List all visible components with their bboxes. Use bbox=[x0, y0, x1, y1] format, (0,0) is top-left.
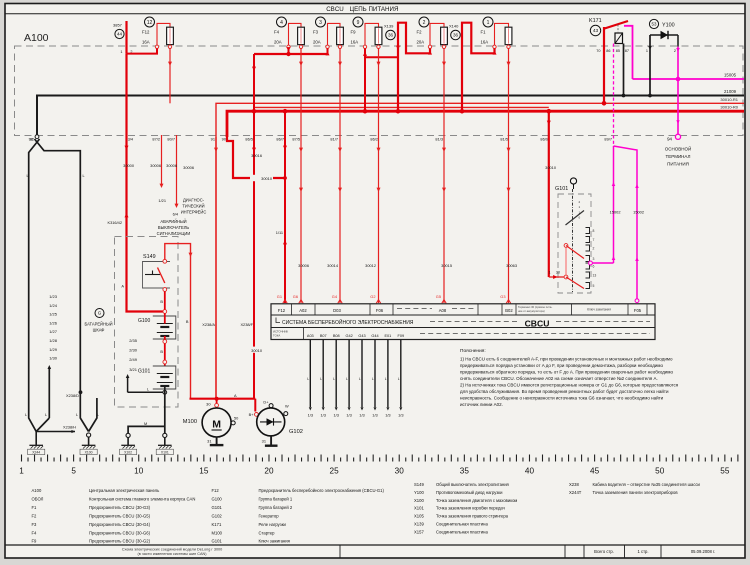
svg-text:53: 53 bbox=[652, 22, 657, 27]
fuse F2 pin circles bbox=[428, 45, 431, 48]
svg-text:15: 15 bbox=[199, 467, 209, 476]
switch S149 wire to B bbox=[165, 244, 191, 399]
svg-text:36: 36 bbox=[453, 33, 459, 38]
magenta bus 15005 bbox=[633, 78, 745, 80]
svg-text:6/4: 6/4 bbox=[173, 212, 179, 217]
fuse F3 symbol bbox=[337, 27, 344, 44]
svg-text:S149: S149 bbox=[143, 254, 156, 260]
starter M100 ground 31 bbox=[216, 437, 218, 445]
wire knot pin 90 thick 30010 bbox=[227, 137, 285, 178]
svg-text:G101: G101 bbox=[138, 369, 150, 375]
svg-text:F09: F09 bbox=[398, 334, 405, 338]
fuse F9 pin circles bbox=[363, 45, 366, 48]
svg-text:X100: X100 bbox=[85, 451, 93, 455]
svg-text:87: 87 bbox=[625, 49, 629, 53]
wire battery G100 to G101 bbox=[164, 336, 166, 366]
svg-text:ШКАФ: ШКАФ bbox=[93, 328, 105, 333]
relay K171 red wire pin 70 to bus bbox=[603, 27, 605, 103]
svg-text:Реле нагрузки: Реле нагрузки bbox=[259, 522, 287, 527]
svg-text:1/3: 1/3 bbox=[385, 413, 390, 418]
wire stub 87/2 to 1/21 bbox=[161, 135, 163, 184]
svg-text:1/28: 1/28 bbox=[49, 338, 58, 343]
svg-text:1/23: 1/23 bbox=[49, 294, 58, 299]
svg-text:L: L bbox=[83, 174, 85, 178]
svg-text:89/7: 89/7 bbox=[604, 136, 612, 141]
svg-text:85: 85 bbox=[616, 49, 620, 53]
A100 dashed boundary box bbox=[15, 46, 744, 136]
CBCU row2 dashes bbox=[430, 321, 517, 323]
svg-text:20A: 20A bbox=[274, 40, 282, 45]
svg-text:31: 31 bbox=[262, 439, 266, 444]
svg-text:G102: G102 bbox=[289, 429, 303, 435]
svg-text:Терминал 30 (прямое пита-: Терминал 30 (прямое пита- bbox=[518, 305, 552, 309]
svg-text:S149: S149 bbox=[414, 482, 424, 487]
svg-text:81/5: 81/5 bbox=[500, 136, 508, 141]
ground wire 92 fork bbox=[35, 135, 39, 139]
svg-text:L: L bbox=[398, 377, 400, 381]
svg-text:G101: G101 bbox=[212, 505, 223, 510]
svg-text:12: 12 bbox=[147, 20, 153, 26]
wire G3 to CBCU B02 bbox=[508, 49, 510, 304]
wire G6 to CBCU A02 bbox=[300, 49, 302, 304]
svg-text:F12: F12 bbox=[142, 30, 150, 35]
svg-text:F4: F4 bbox=[274, 30, 280, 35]
svg-text:ДИАГНОС-: ДИАГНОС- bbox=[183, 198, 205, 203]
svg-text:A08: A08 bbox=[439, 308, 447, 313]
terminal 94 circle bbox=[675, 134, 680, 139]
ignition switch magenta contact 6 bbox=[589, 261, 593, 265]
svg-text:G101: G101 bbox=[555, 186, 568, 192]
svg-text:L: L bbox=[25, 413, 27, 417]
svg-text:G42: G42 bbox=[346, 334, 353, 338]
CBCU connector cell dividers bbox=[291, 304, 293, 315]
svg-text:M: M bbox=[212, 419, 221, 431]
svg-text:81/3: 81/3 bbox=[435, 136, 443, 141]
CBCU UPS system caption bbox=[276, 318, 280, 323]
ruler scale bbox=[22, 455, 738, 462]
black bus 21009 bbox=[37, 96, 744, 135]
svg-text:Предохранитель CBCU (30-G3): Предохранитель CBCU (30-G3) bbox=[89, 505, 151, 510]
svg-text:B: B bbox=[160, 299, 163, 304]
svg-text:F3: F3 bbox=[32, 522, 38, 527]
relay K171 contact arm bbox=[605, 21, 629, 29]
svg-text:86/2: 86/2 bbox=[370, 136, 378, 141]
fuse F2 symbol bbox=[441, 27, 448, 44]
svg-text:1/3: 1/3 bbox=[372, 413, 377, 418]
magenta pin arrow F05 bbox=[635, 300, 638, 303]
fuse F9 circled pin number 9 bbox=[353, 17, 363, 27]
wire bracket battery minus bbox=[128, 391, 163, 393]
battery cabinet circled G bbox=[95, 309, 104, 318]
fuse F1 circled pin number 1 bbox=[483, 17, 493, 27]
svg-text:31: 31 bbox=[207, 439, 211, 444]
svg-text:16A: 16A bbox=[142, 40, 150, 45]
svg-text:СИГНАЛИЗАЦИИ: СИГНАЛИЗАЦИИ bbox=[157, 231, 191, 236]
connector pin 44 circled bbox=[115, 29, 124, 38]
svg-text:05.09.2008 г.: 05.09.2008 г. bbox=[691, 549, 715, 554]
svg-text:A02: A02 bbox=[299, 308, 307, 313]
svg-text:F3: F3 bbox=[313, 30, 319, 35]
svg-text:ЦЕПЬ ПИТАНИЯ: ЦЕПЬ ПИТАНИЯ bbox=[350, 6, 399, 13]
svg-text:неисправность. Сообщение о неи: неисправность. Сообщение о неисправности… bbox=[460, 394, 664, 400]
CBCU ground wires bbox=[309, 340, 311, 408]
wire thick drop to bus at x254 bbox=[253, 54, 255, 399]
svg-text:Точка заземления панели электр: Точка заземления панели электроприборов bbox=[593, 490, 679, 495]
svg-text:L: L bbox=[372, 377, 374, 381]
svg-text:1/3: 1/3 bbox=[308, 413, 313, 418]
svg-text:F05: F05 bbox=[634, 308, 642, 313]
svg-text:35: 35 bbox=[460, 467, 470, 476]
svg-text:(в части изменения системы шин: (в части изменения системы шин CAN) bbox=[137, 552, 207, 556]
svg-text:БАТАРЕЙНЫЙ: БАТАРЕЙНЫЙ bbox=[84, 322, 112, 327]
svg-text:1: 1 bbox=[487, 20, 490, 26]
wire label 30010 box bbox=[250, 175, 273, 181]
wire label 30010 on X238F bbox=[247, 347, 262, 353]
svg-text:70: 70 bbox=[596, 49, 600, 53]
svg-text:F4: F4 bbox=[32, 530, 38, 535]
svg-text:1/27: 1/27 bbox=[49, 329, 58, 334]
ignition switch dashed box bbox=[558, 194, 591, 293]
svg-text:A: A bbox=[121, 284, 124, 289]
svg-text:1/26: 1/26 bbox=[49, 320, 58, 325]
svg-text:44: 44 bbox=[117, 32, 123, 37]
svg-text:1/29: 1/29 bbox=[49, 347, 58, 352]
wire thick feed segment A F4 F3 bbox=[254, 53, 328, 55]
ignition switch arm bbox=[566, 211, 585, 226]
switch S149 red contacts and arm bbox=[163, 259, 167, 263]
fuse F9 wire loop bbox=[365, 23, 379, 45]
svg-text:K316/42: K316/42 bbox=[108, 220, 123, 225]
svg-text:X157: X157 bbox=[414, 529, 424, 534]
generator G102 pin W bbox=[284, 412, 288, 416]
svg-text:1/3: 1/3 bbox=[398, 413, 403, 418]
svg-text:81/7: 81/7 bbox=[330, 136, 338, 141]
svg-text:X101: X101 bbox=[161, 451, 169, 455]
svg-text:40: 40 bbox=[525, 467, 535, 476]
svg-text:Группа батарей 2: Группа батарей 2 bbox=[259, 505, 293, 510]
svg-text:B02: B02 bbox=[505, 308, 513, 313]
svg-text:92: 92 bbox=[30, 137, 34, 142]
svg-text:CBCU: CBCU bbox=[326, 6, 344, 13]
svg-text:G101: G101 bbox=[212, 539, 223, 544]
battery G100 symbol bbox=[153, 316, 176, 339]
wire jumper X238/H bbox=[36, 431, 75, 433]
svg-text:Противопомеховый диод нагрузки: Противопомеховый диод нагрузки bbox=[436, 490, 503, 495]
svg-text:30: 30 bbox=[395, 467, 405, 476]
svg-text:16A: 16A bbox=[351, 40, 359, 45]
battery G101 symbol bbox=[153, 366, 176, 389]
wire stub 1/23-1/30 references bbox=[48, 367, 50, 418]
fuse F1 wire loop bbox=[495, 23, 509, 45]
CBCU source cell text bbox=[303, 328, 305, 340]
svg-text:1 стр.: 1 стр. bbox=[638, 549, 649, 554]
svg-text:15002: 15002 bbox=[633, 210, 644, 215]
svg-text:СИСТЕМА БЕСПЕРЕБОЙНОГО ЭЛЕКТРО: СИСТЕМА БЕСПЕРЕБОЙНОГО ЭЛЕКТРОСНАБЖЕНИЯ bbox=[282, 318, 414, 326]
svg-text:F9: F9 bbox=[32, 539, 38, 544]
svg-text:D+: D+ bbox=[263, 400, 269, 405]
switch S149 box bbox=[143, 262, 171, 289]
svg-text:30010-R1: 30010-R1 bbox=[720, 97, 738, 102]
svg-text:2: 2 bbox=[593, 247, 595, 251]
generator G102 pin D+ bbox=[269, 404, 273, 408]
magenta wire ignition to 15002 bbox=[592, 262, 613, 264]
svg-text:30006: 30006 bbox=[150, 163, 161, 168]
svg-text:Ключ зажигания: Ключ зажигания bbox=[587, 308, 611, 312]
svg-text:B+: B+ bbox=[249, 412, 255, 417]
generator G102 body bbox=[257, 408, 285, 436]
starter M100 pin 30 contact bbox=[215, 403, 219, 407]
svg-text:1/3: 1/3 bbox=[333, 413, 338, 418]
svg-text:ПИТАНИЯ: ПИТАНИЯ bbox=[667, 162, 689, 167]
svg-text:30063: 30063 bbox=[506, 263, 517, 268]
red bus 30010-R1 bbox=[216, 103, 744, 137]
svg-text:Стартер: Стартер bbox=[259, 530, 276, 535]
magenta dashed wire pin 85 down bbox=[613, 44, 615, 147]
svg-text:X244: X244 bbox=[32, 451, 40, 455]
svg-text:3: 3 bbox=[319, 20, 322, 26]
fuse F3 circled pin number 3 bbox=[316, 17, 326, 27]
svg-text:G4: G4 bbox=[332, 294, 338, 299]
battery cabinet dashed box bbox=[115, 237, 179, 408]
svg-text:Точка заземления коробки перед: Точка заземления коробки передач bbox=[436, 506, 505, 511]
fuse F12 circled pin number 12 bbox=[145, 17, 155, 27]
wire G4 to CBCU D03 bbox=[339, 49, 341, 304]
title block bbox=[5, 544, 745, 546]
wire red into pin 30 bbox=[549, 276, 564, 278]
wire pin 91 to starter bbox=[215, 137, 217, 399]
svg-text:L: L bbox=[333, 377, 335, 381]
fuse F1 symbol bbox=[505, 27, 512, 44]
svg-text:D03: D03 bbox=[333, 308, 341, 313]
svg-text:L: L bbox=[346, 377, 348, 381]
svg-text:2) На источниках тока CBCU име: 2) На источниках тока CBCU имеются регис… bbox=[460, 383, 679, 388]
CBCU row3 dashes bbox=[420, 333, 650, 335]
svg-text:20: 20 bbox=[264, 467, 274, 476]
wire jumper to X102 bbox=[128, 426, 165, 433]
generator G102 pin B+ contact bbox=[255, 413, 259, 417]
ground X100 bbox=[87, 433, 91, 437]
fuse F3 pin circles bbox=[326, 45, 329, 48]
wire G5 to CBCU A08 bbox=[443, 49, 445, 304]
svg-text:30006: 30006 bbox=[298, 263, 309, 268]
svg-text:36: 36 bbox=[388, 33, 394, 38]
ignition switch shaft dash-dot line bbox=[572, 189, 574, 292]
svg-text:16A: 16A bbox=[481, 40, 489, 45]
svg-text:G3: G3 bbox=[500, 294, 505, 299]
fuse F2 wire loop bbox=[430, 23, 444, 45]
svg-text:86/9: 86/9 bbox=[540, 136, 548, 141]
fuse F4 pin circles bbox=[287, 45, 290, 48]
svg-text:15002: 15002 bbox=[610, 210, 621, 215]
svg-text:источник линии A02.: источник линии A02. bbox=[460, 402, 503, 407]
svg-text:G: G bbox=[98, 311, 102, 316]
svg-text:8: 8 bbox=[593, 229, 595, 233]
svg-text:1/30: 1/30 bbox=[49, 356, 58, 361]
svg-text:G5: G5 bbox=[436, 294, 441, 299]
relay K171 coil bbox=[615, 33, 623, 44]
svg-text:1: 1 bbox=[19, 467, 24, 476]
fuse F12 symbol bbox=[167, 27, 174, 44]
svg-text:1: 1 bbox=[646, 49, 648, 53]
svg-text:L: L bbox=[27, 174, 29, 178]
diode Y100 right leg black bbox=[677, 35, 679, 47]
svg-text:20A: 20A bbox=[417, 40, 425, 45]
svg-text:A03: A03 bbox=[307, 334, 314, 338]
svg-text:30006: 30006 bbox=[166, 163, 177, 168]
svg-text:АВАРИЙНЫЙ: АВАРИЙНЫЙ bbox=[160, 219, 186, 224]
svg-text:X238/H: X238/H bbox=[63, 425, 76, 430]
svg-text:CBCU: CBCU bbox=[525, 318, 550, 328]
svg-text:50: 50 bbox=[655, 467, 665, 476]
svg-text:A: A bbox=[234, 393, 237, 398]
svg-text:Y100: Y100 bbox=[414, 490, 424, 495]
svg-text:5: 5 bbox=[71, 467, 76, 476]
svg-text:30: 30 bbox=[556, 271, 560, 275]
svg-text:30010: 30010 bbox=[261, 176, 273, 181]
fuse F12 wire loop bbox=[157, 23, 170, 45]
wire red node to starter pin 30 bbox=[190, 398, 256, 400]
relay K171 magenta wire to 15005 bus bbox=[624, 26, 633, 79]
wire to generator B+ bbox=[254, 399, 256, 412]
ignition switch red contacts bbox=[564, 244, 568, 248]
svg-text:F9: F9 bbox=[351, 30, 357, 35]
svg-text:G44: G44 bbox=[371, 334, 378, 338]
svg-text:1/21: 1/21 bbox=[158, 198, 166, 203]
svg-text:ОБОЛ: ОБОЛ bbox=[32, 496, 44, 501]
wire thick bus to ignition switch pin 30 bbox=[548, 111, 550, 277]
wire X140 riser and staircase to F1 bbox=[462, 23, 495, 112]
svg-text:F06: F06 bbox=[376, 308, 384, 313]
svg-text:94: 94 bbox=[667, 137, 672, 142]
svg-text:1/3: 1/3 bbox=[320, 413, 325, 418]
svg-text:30000: 30000 bbox=[123, 163, 135, 168]
svg-text:Предохранитель CBCU (30-G2): Предохранитель CBCU (30-G2) bbox=[89, 539, 151, 544]
svg-text:G43: G43 bbox=[358, 334, 365, 338]
svg-text:L: L bbox=[307, 377, 309, 381]
svg-text:M100: M100 bbox=[212, 530, 223, 535]
diode Y100 left leg to black bus bbox=[649, 35, 651, 96]
svg-text:2: 2 bbox=[674, 49, 676, 53]
CBCU row1 dashes bbox=[397, 308, 432, 310]
svg-text:L: L bbox=[76, 413, 78, 417]
svg-text:ние от аккумулятора): ние от аккумулятора) bbox=[518, 309, 545, 313]
svg-text:1: 1 bbox=[548, 271, 550, 275]
svg-text:ТИЧЕСКИЙ: ТИЧЕСКИЙ bbox=[182, 204, 204, 209]
svg-text:ИНТЕРФЕЙС: ИНТЕРФЕЙС bbox=[181, 210, 207, 215]
svg-text:G102: G102 bbox=[212, 513, 223, 518]
svg-text:K171: K171 bbox=[212, 522, 222, 527]
svg-text:X139: X139 bbox=[384, 23, 394, 28]
svg-text:30016: 30016 bbox=[251, 153, 262, 158]
ignition switch key symbol bbox=[570, 178, 576, 184]
svg-text:B: B bbox=[186, 319, 189, 324]
svg-text:Контрольная система главного э: Контрольная система главного элемента ко… bbox=[89, 496, 195, 501]
svg-text:X102: X102 bbox=[124, 451, 132, 455]
wire mid arrows second row bbox=[299, 188, 303, 192]
svg-text:Пояснения:: Пояснения: bbox=[460, 348, 486, 354]
svg-text:87/2: 87/2 bbox=[152, 136, 160, 141]
wire stub to X100 plate bbox=[89, 398, 97, 432]
svg-text:Группа батарей 1: Группа батарей 1 bbox=[259, 496, 293, 501]
svg-text:Соединительная пластина: Соединительная пластина bbox=[436, 522, 488, 527]
svg-text:X101: X101 bbox=[414, 506, 424, 511]
svg-text:B07: B07 bbox=[320, 334, 327, 338]
svg-text:30015: 30015 bbox=[441, 263, 452, 268]
wire G2 to CBCU F06 bbox=[378, 49, 380, 304]
svg-text:M100: M100 bbox=[183, 419, 197, 425]
svg-text:30012: 30012 bbox=[365, 263, 376, 268]
svg-text:W: W bbox=[285, 404, 289, 409]
svg-text:L: L bbox=[320, 377, 322, 381]
svg-text:Схема электрических соединений: Схема электрических соединений модели De… bbox=[122, 547, 223, 551]
svg-text:F2: F2 bbox=[32, 513, 38, 518]
generator G102 ground 31 bbox=[270, 436, 272, 446]
svg-text:L: L bbox=[147, 388, 149, 392]
svg-text:X238/F: X238/F bbox=[240, 322, 253, 327]
svg-text:86: 86 bbox=[606, 49, 610, 53]
svg-text:G1: G1 bbox=[277, 294, 282, 299]
svg-text:X244T: X244T bbox=[569, 490, 582, 495]
svg-text:Общий выключатель электропитан: Общий выключатель электропитания bbox=[436, 482, 509, 487]
fuse F4 circled pin number 4 bbox=[277, 17, 287, 27]
svg-text:91: 91 bbox=[211, 136, 215, 141]
svg-text:2: 2 bbox=[423, 20, 426, 26]
svg-text:87/5: 87/5 bbox=[292, 136, 300, 141]
svg-text:Кабина водителя – отверстие №3: Кабина водителя – отверстие №35 соединит… bbox=[593, 482, 701, 487]
svg-text:5: 5 bbox=[593, 284, 595, 288]
svg-text:1/24: 1/24 bbox=[49, 303, 58, 308]
fuse F1 pin circles bbox=[493, 45, 496, 48]
svg-text:F2: F2 bbox=[417, 30, 423, 35]
svg-text:3857: 3857 bbox=[113, 23, 123, 28]
fuse F12 pin circles bbox=[155, 45, 158, 48]
svg-text:K171: K171 bbox=[589, 18, 602, 24]
battery G100 contacts bbox=[163, 310, 167, 314]
svg-text:6: 6 bbox=[593, 265, 595, 269]
svg-text:Предохранитель бесперебойного: Предохранитель бесперебойного электросна… bbox=[259, 488, 385, 493]
starter M100 body bbox=[202, 408, 231, 437]
svg-text:G6: G6 bbox=[293, 294, 298, 299]
svg-text:13: 13 bbox=[593, 274, 597, 278]
svg-text:G100: G100 bbox=[138, 318, 150, 324]
svg-text:для удобства обслуживания. Во: для удобства обслуживания. Во время пров… bbox=[460, 388, 669, 394]
svg-text:M: M bbox=[144, 422, 147, 426]
svg-text:7: 7 bbox=[593, 238, 595, 242]
svg-text:Всего стр.: Всего стр. bbox=[594, 549, 614, 554]
ground X102 bbox=[126, 433, 130, 437]
svg-text:10: 10 bbox=[134, 467, 144, 476]
svg-text:L: L bbox=[45, 413, 47, 417]
svg-text:F12: F12 bbox=[278, 308, 286, 313]
svg-text:30010: 30010 bbox=[251, 348, 263, 353]
svg-text:придерживаться порядка установ: придерживаться порядка установки от A до… bbox=[460, 363, 663, 368]
svg-text:A100: A100 bbox=[24, 32, 49, 44]
svg-text:2/49: 2/49 bbox=[129, 357, 138, 362]
battery G101 negative contact bbox=[163, 390, 167, 394]
wire stub 3/21 up arrow bbox=[127, 376, 129, 392]
svg-text:L: L bbox=[359, 377, 361, 381]
svg-text:ТОКА: ТОКА bbox=[273, 334, 280, 338]
svg-text:Соединительная пластина: Соединительная пластина bbox=[436, 529, 488, 534]
diode Y100 symbol bbox=[650, 34, 678, 36]
svg-text:1/11: 1/11 bbox=[276, 230, 283, 235]
svg-text:20A: 20A bbox=[313, 40, 321, 45]
svg-text:B08: B08 bbox=[333, 334, 340, 338]
svg-text:55: 55 bbox=[720, 467, 730, 476]
magenta wire to main power terminal 94 bbox=[677, 47, 679, 136]
relay K171 actuator dashed link bbox=[617, 25, 619, 34]
wire label X238/D bbox=[79, 390, 83, 394]
